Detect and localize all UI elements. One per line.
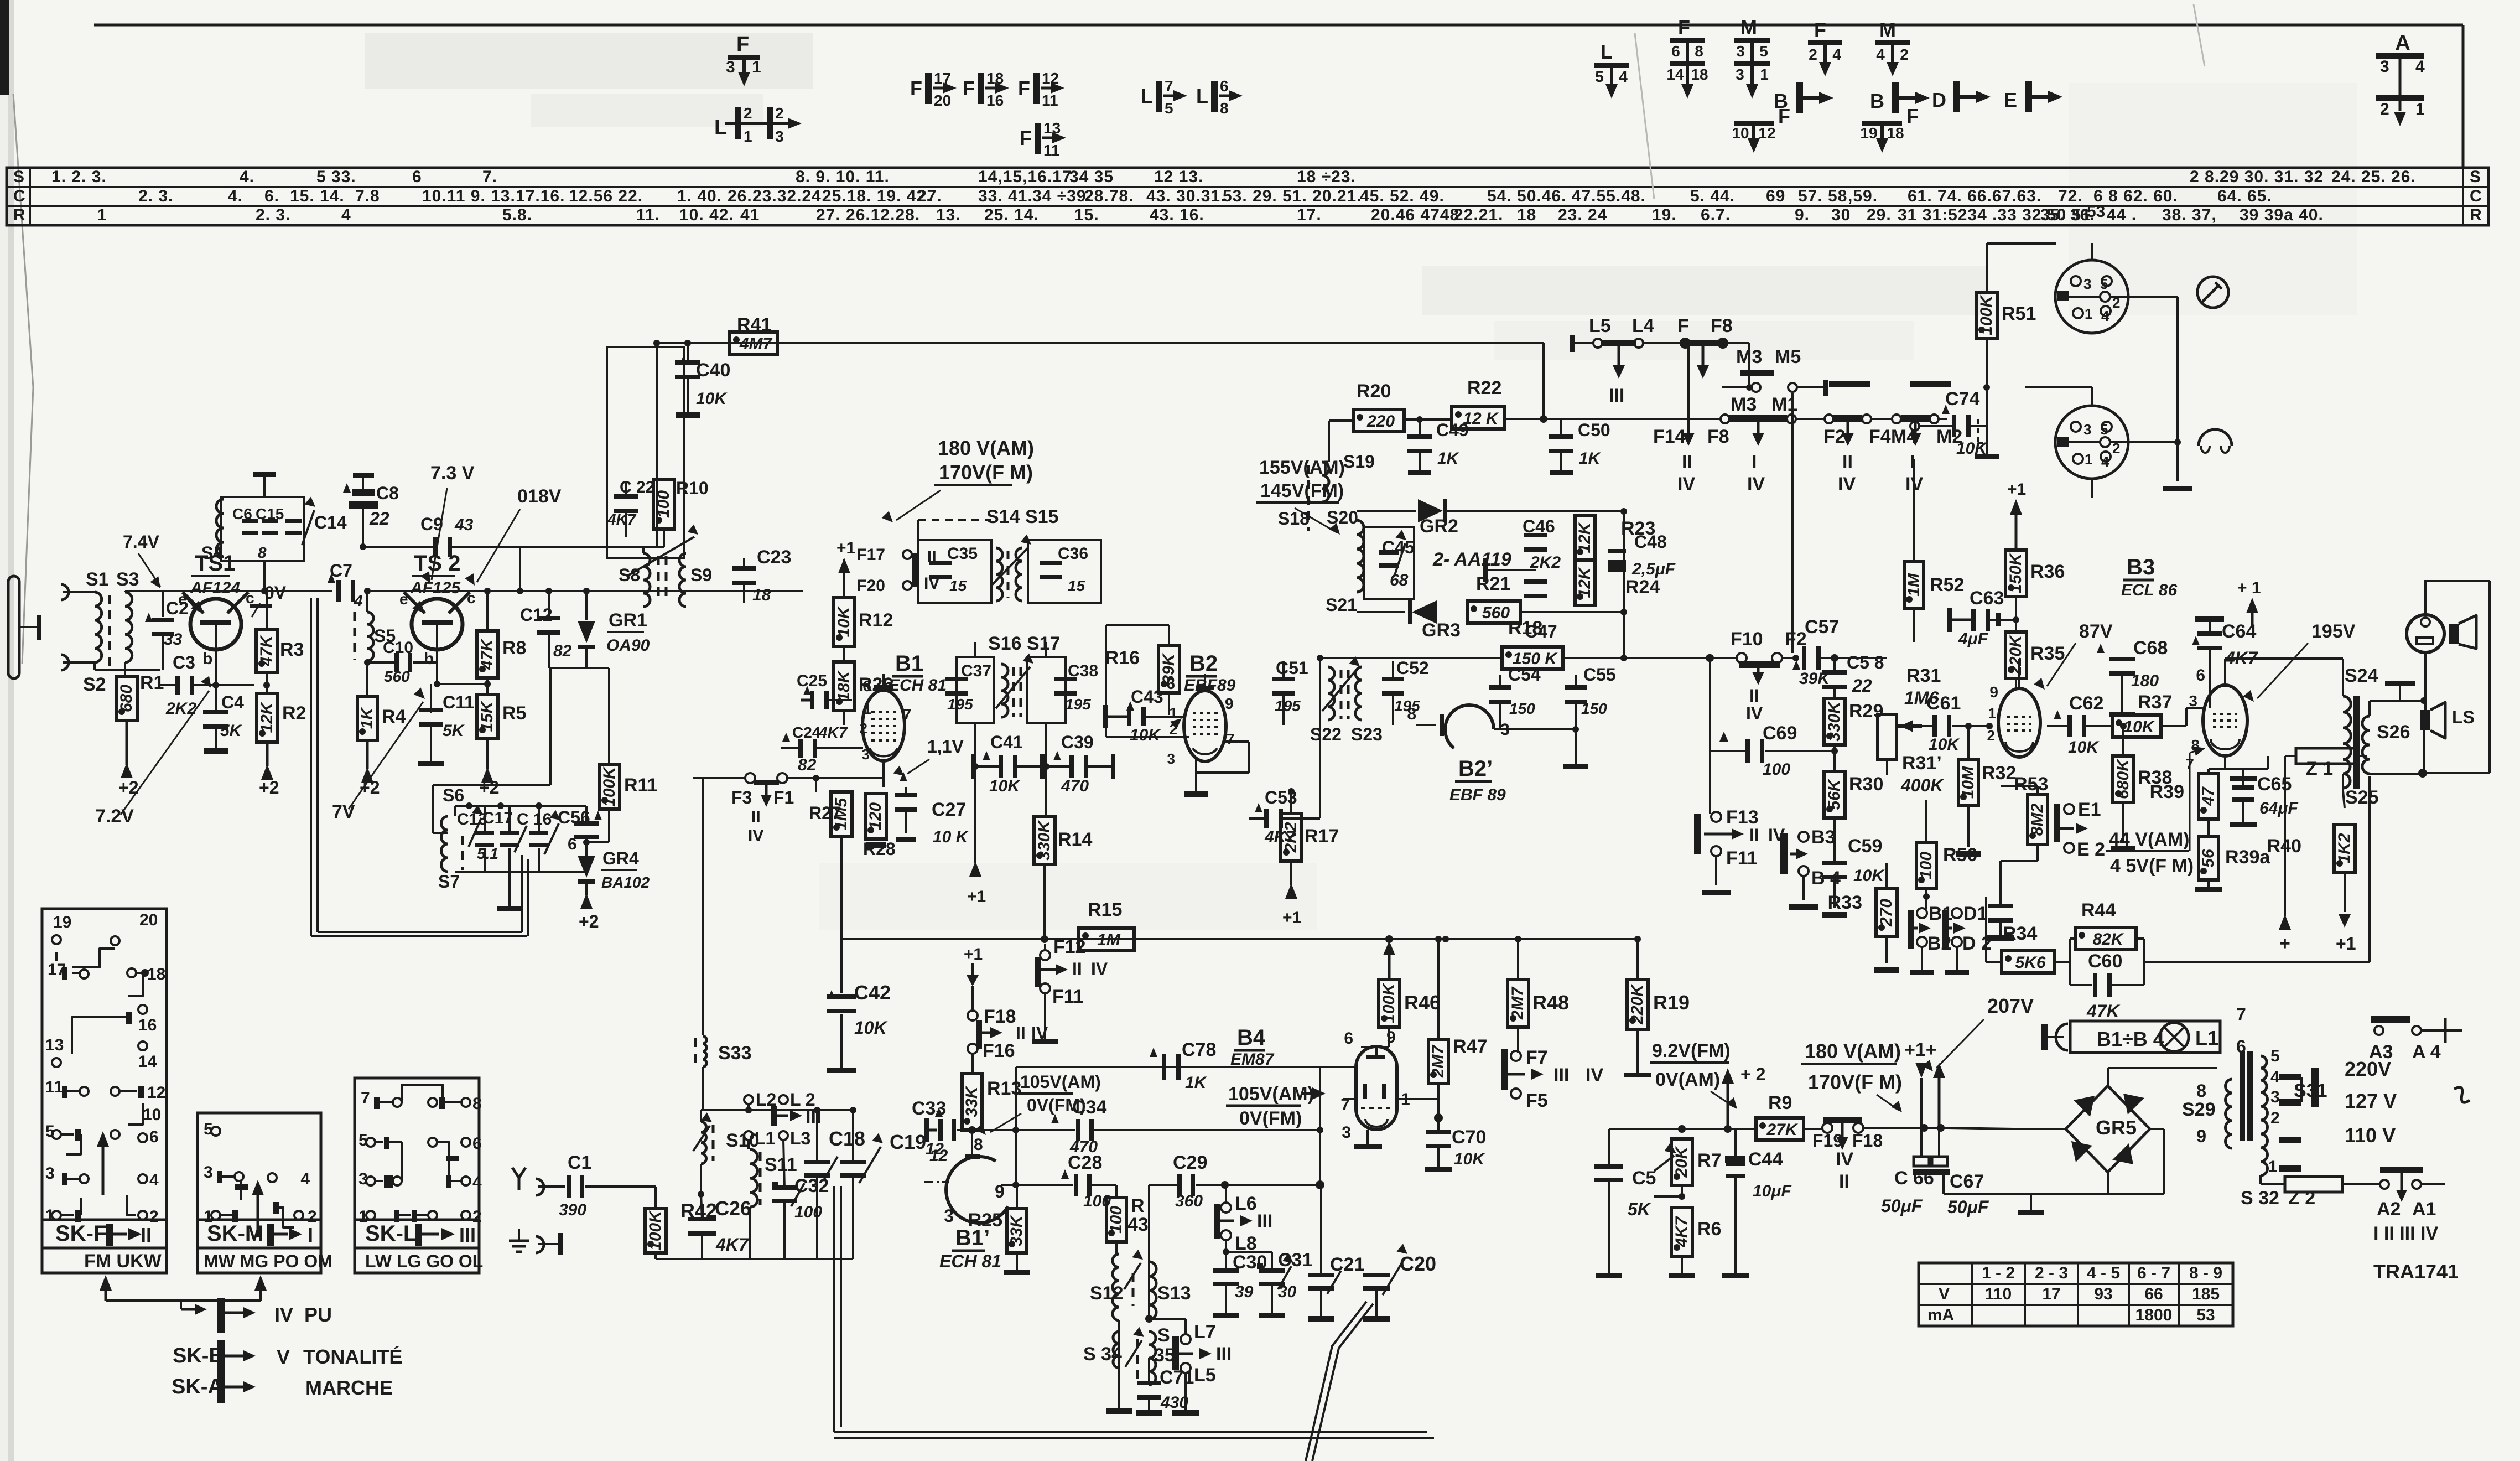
svg-text:C4: C4 (221, 692, 244, 712)
svg-text:7.8: 7.8 (355, 187, 380, 205)
svg-text:TRA1741: TRA1741 (2373, 1260, 2459, 1283)
svg-text:C25: C25 (797, 672, 827, 690)
svg-text:F: F (1778, 105, 1790, 127)
svg-text:3: 3 (944, 1206, 954, 1226)
svg-text:B1: B1 (895, 651, 923, 676)
svg-text:5: 5 (1165, 100, 1173, 117)
svg-text:11: 11 (45, 1078, 63, 1096)
svg-text:10. 42.: 10. 42. (679, 206, 734, 224)
svg-text:II: II (1016, 1023, 1026, 1043)
svg-text:FM UKW: FM UKW (84, 1251, 162, 1272)
svg-text:S: S (1157, 1325, 1170, 1346)
svg-text:10K: 10K (2068, 738, 2100, 757)
svg-text:B4: B4 (1237, 1025, 1266, 1050)
svg-text:7: 7 (361, 1089, 370, 1107)
svg-text:C63: C63 (1970, 588, 2004, 609)
svg-text:S8: S8 (619, 565, 640, 585)
svg-text:S 34: S 34 (1083, 1344, 1122, 1365)
svg-text:195: 195 (1065, 696, 1091, 713)
svg-text:82K: 82K (2092, 930, 2124, 949)
svg-text:100: 100 (1107, 1206, 1125, 1234)
svg-text:S16 S17: S16 S17 (988, 633, 1060, 654)
svg-text:+1+: +1+ (1904, 1039, 1937, 1060)
svg-text:II: II (1682, 452, 1692, 473)
svg-text:8: 8 (2196, 1081, 2206, 1101)
svg-text:B1÷B 4: B1÷B 4 (2097, 1028, 2164, 1050)
svg-text:R18: R18 (1508, 618, 1542, 639)
svg-text:B2’: B2’ (1458, 757, 1493, 781)
svg-text:5: 5 (2270, 1047, 2280, 1065)
svg-text:23.32.24.: 23.32.24. (752, 187, 827, 205)
svg-text:F18: F18 (1852, 1131, 1883, 1151)
svg-text:R10: R10 (676, 478, 709, 498)
svg-text:56K: 56K (1825, 778, 1843, 810)
svg-text:S11: S11 (765, 1154, 797, 1175)
svg-text:68: 68 (1390, 571, 1409, 589)
svg-text:AF124: AF124 (190, 579, 240, 597)
svg-text:150: 150 (1509, 700, 1535, 717)
svg-text:C39: C39 (1061, 732, 1094, 752)
svg-text:C57: C57 (1805, 616, 1839, 638)
svg-text:F: F (1020, 127, 1032, 149)
svg-text:2 8.29 30. 31. 32: 2 8.29 30. 31. 32 (2190, 168, 2324, 186)
svg-text:D: D (1932, 89, 1946, 111)
svg-text:F4: F4 (1869, 426, 1891, 447)
svg-text:120: 120 (866, 802, 885, 830)
svg-text:IV: IV (924, 574, 939, 593)
svg-text:II: II (1072, 959, 1082, 979)
svg-text:C37: C37 (961, 662, 991, 680)
svg-text:I: I (1752, 452, 1757, 473)
svg-text:R47: R47 (1453, 1036, 1487, 1057)
svg-text:390: 390 (559, 1201, 586, 1219)
svg-text:+1: +1 (836, 539, 855, 557)
svg-text:III: III (806, 1107, 821, 1128)
svg-text:S2: S2 (83, 674, 106, 695)
svg-text:C59: C59 (1848, 836, 1882, 857)
svg-text:F1: F1 (773, 788, 794, 807)
svg-text:SK-A: SK-A (172, 1375, 223, 1398)
svg-text:L: L (1601, 40, 1613, 63)
svg-text:195: 195 (1275, 697, 1301, 714)
svg-text:S9: S9 (690, 565, 712, 585)
svg-text:1: 1 (2415, 100, 2425, 118)
svg-text:C10: C10 (383, 639, 413, 657)
svg-text:EM87: EM87 (1230, 1050, 1275, 1069)
svg-text:L3: L3 (790, 1128, 810, 1148)
svg-text:7.: 7. (482, 168, 497, 186)
svg-text:R9: R9 (1768, 1092, 1792, 1113)
svg-text:F14: F14 (1653, 426, 1686, 447)
svg-text:6: 6 (2196, 666, 2205, 685)
svg-text:C1: C1 (568, 1152, 591, 1173)
svg-text:R44: R44 (2081, 900, 2116, 921)
svg-text:SK-F: SK-F (55, 1221, 107, 1246)
svg-text:3: 3 (1342, 1123, 1351, 1142)
svg-text:1: 1 (2085, 451, 2092, 468)
svg-text:S3: S3 (116, 569, 139, 590)
svg-text:10K: 10K (835, 605, 853, 637)
svg-text:C12: C12 (520, 605, 553, 625)
svg-text:560: 560 (384, 668, 410, 685)
svg-text:19: 19 (53, 913, 71, 931)
svg-text:1: 1 (752, 58, 761, 76)
svg-text:13: 13 (1043, 120, 1061, 137)
svg-text:GR3: GR3 (1422, 620, 1461, 641)
svg-text:II: II (141, 1224, 152, 1246)
svg-text:S: S (2470, 168, 2481, 186)
svg-text:E 2: E 2 (2077, 839, 2105, 860)
svg-text:11.: 11. (636, 206, 660, 224)
svg-text:43: 43 (454, 516, 474, 534)
svg-text:33K: 33K (1007, 1214, 1026, 1246)
svg-text:27.: 27. (917, 187, 942, 205)
svg-text:180 V(AM): 180 V(AM) (1805, 1040, 1901, 1063)
svg-text:E: E (2004, 89, 2017, 111)
svg-text:1 - 2: 1 - 2 (1982, 1264, 2015, 1282)
svg-text:R26: R26 (859, 674, 893, 695)
svg-text:2M7: 2M7 (1429, 1045, 1447, 1079)
svg-text:18K: 18K (835, 670, 853, 701)
svg-text:4μF: 4μF (1958, 630, 1988, 648)
svg-text:4K7: 4K7 (607, 511, 637, 528)
svg-text:6: 6 (568, 835, 577, 853)
svg-text:R34: R34 (2003, 923, 2037, 944)
svg-text:0V: 0V (264, 583, 287, 603)
svg-text:180: 180 (2131, 672, 2159, 690)
svg-text:B2: B2 (1189, 651, 1218, 676)
svg-text:R51: R51 (2002, 303, 2036, 324)
svg-text:III: III (1553, 1065, 1569, 1086)
svg-text:R28: R28 (863, 839, 896, 859)
svg-text:5: 5 (1595, 68, 1604, 85)
svg-text:c: c (246, 589, 254, 607)
svg-text:110 V: 110 V (2345, 1124, 2396, 1147)
svg-text:R2: R2 (282, 703, 306, 724)
svg-text:1K: 1K (358, 706, 376, 729)
svg-text:F3: F3 (731, 788, 752, 807)
svg-text:10μF: 10μF (1753, 1182, 1791, 1200)
svg-text:5: 5 (2100, 276, 2108, 292)
svg-text:18: 18 (752, 586, 771, 604)
svg-text:C48: C48 (1634, 532, 1667, 552)
svg-text:IV: IV (1746, 703, 1763, 723)
svg-text:47K: 47K (2086, 1001, 2121, 1021)
svg-text:II: II (751, 808, 761, 826)
svg-text:S19: S19 (1343, 452, 1375, 472)
svg-text:3: 3 (726, 58, 735, 76)
svg-text:8M2: 8M2 (2028, 804, 2046, 836)
svg-text:12K: 12K (258, 701, 276, 733)
svg-text:170V(F M): 170V(F M) (1808, 1071, 1902, 1094)
svg-text:R: R (2470, 206, 2482, 224)
svg-text:II: II (927, 548, 937, 566)
svg-text:R20: R20 (1357, 381, 1391, 402)
svg-text:22.21.: 22.21. (1454, 206, 1503, 224)
svg-text:E1: E1 (2078, 799, 2101, 820)
svg-text:4.: 4. (228, 187, 243, 205)
svg-text:1: 1 (744, 128, 752, 145)
svg-text:C52: C52 (1396, 658, 1429, 678)
svg-text:R8: R8 (502, 638, 526, 659)
svg-text:50μF: 50μF (1881, 1196, 1923, 1216)
svg-text:C49: C49 (1436, 420, 1469, 440)
svg-text:R37: R37 (2138, 692, 2172, 713)
svg-text:110: 110 (1985, 1285, 2012, 1303)
svg-text:C5: C5 (1632, 1168, 1656, 1189)
svg-text:1: 1 (1988, 705, 1996, 722)
svg-text:47: 47 (2199, 786, 2217, 806)
svg-text:L7: L7 (1194, 1322, 1216, 1343)
svg-text:M: M (1879, 18, 1896, 41)
svg-text:270: 270 (1877, 899, 1895, 927)
svg-text:3: 3 (775, 128, 784, 145)
svg-text:L5: L5 (1194, 1365, 1216, 1386)
svg-text:5: 5 (2100, 421, 2108, 438)
svg-text:,59.: ,59. (1848, 187, 1878, 205)
svg-text:3: 3 (2270, 1088, 2280, 1106)
svg-text:195: 195 (947, 696, 973, 713)
svg-text:II: II (1842, 452, 1853, 473)
svg-text:72.: 72. (2058, 187, 2083, 205)
svg-text:C69: C69 (1763, 723, 1797, 744)
svg-text:ECL 86: ECL 86 (2121, 581, 2177, 599)
svg-text:2: 2 (2380, 100, 2389, 118)
svg-text:C44: C44 (1748, 1149, 1783, 1170)
svg-text:IV: IV (1031, 1023, 1048, 1043)
svg-text:C8: C8 (376, 483, 399, 503)
svg-text:4K7: 4K7 (715, 1235, 750, 1255)
svg-text:M3: M3 (1736, 346, 1762, 367)
svg-text:+1: +1 (967, 888, 986, 906)
svg-text:127 V: 127 V (2345, 1090, 2397, 1112)
svg-text:C41: C41 (990, 732, 1023, 752)
svg-text:4: 4 (2270, 1068, 2280, 1086)
svg-text:R35: R35 (2030, 643, 2065, 664)
svg-text:A2: A2 (2377, 1199, 2401, 1220)
svg-text:IV: IV (1747, 474, 1765, 495)
svg-text:18 ÷23.: 18 ÷23. (1297, 168, 1356, 186)
svg-text:10K: 10K (1853, 867, 1885, 885)
svg-text:34 ÷39.: 34 ÷39. (1032, 187, 1092, 205)
svg-text:2,5μF: 2,5μF (1631, 560, 1676, 578)
svg-text:5.1: 5.1 (477, 845, 498, 862)
svg-text:6: 6 (472, 1134, 482, 1153)
svg-text:39: 39 (1235, 1283, 1254, 1301)
svg-text:F: F (910, 77, 922, 100)
svg-text:12: 12 (1758, 125, 1775, 142)
svg-text:33. 41.: 33. 41. (978, 187, 1033, 205)
svg-text:ECH 81: ECH 81 (889, 676, 947, 695)
svg-text:45. 52. 49.: 45. 52. 49. (1360, 187, 1445, 205)
svg-text:C35: C35 (947, 545, 978, 563)
svg-text:35: 35 (1154, 1345, 1175, 1366)
svg-text:C36: C36 (1058, 545, 1088, 563)
svg-text:1: 1 (45, 1206, 55, 1225)
svg-text:C5 8: C5 8 (1847, 652, 1884, 672)
svg-text:10K: 10K (989, 777, 1021, 795)
svg-text:1: 1 (1170, 704, 1177, 721)
svg-text:L4: L4 (1632, 315, 1654, 336)
svg-text:IV: IV (1677, 474, 1695, 495)
svg-text:100: 100 (1763, 760, 1790, 779)
svg-text:S7: S7 (438, 872, 460, 892)
svg-text:5.8.: 5.8. (502, 206, 532, 224)
svg-text:+ 1: + 1 (2237, 579, 2261, 597)
svg-text:R31: R31 (1906, 665, 1941, 686)
svg-text:b: b (424, 650, 434, 668)
svg-text:100K: 100K (1380, 982, 1398, 1023)
svg-text:C31: C31 (1278, 1250, 1312, 1271)
svg-text:15.: 15. (1074, 206, 1099, 224)
svg-text:TONALITÉ: TONALITÉ (303, 1345, 402, 1368)
svg-text:3: 3 (2189, 692, 2197, 709)
svg-text:6: 6 (1344, 1029, 1353, 1048)
svg-text:12: 12 (1042, 70, 1059, 87)
svg-text:39K: 39K (1160, 652, 1178, 684)
svg-text:1K: 1K (1185, 1074, 1208, 1092)
svg-text:GR1: GR1 (609, 610, 647, 631)
svg-text:C28: C28 (1068, 1152, 1102, 1173)
svg-text:C43: C43 (1131, 687, 1163, 707)
svg-text:17: 17 (934, 70, 951, 87)
svg-text:4: 4 (1619, 68, 1628, 85)
svg-text:17.16.: 17.16. (516, 187, 565, 205)
svg-text:R11: R11 (624, 775, 658, 796)
svg-text:B3: B3 (1811, 827, 1835, 848)
svg-text:L1: L1 (2195, 1027, 2218, 1049)
svg-text:S13: S13 (1157, 1283, 1191, 1304)
svg-text:22: 22 (1852, 676, 1872, 696)
svg-text:M3: M3 (1731, 394, 1757, 415)
svg-text:2 - 3: 2 - 3 (2035, 1264, 2068, 1282)
svg-text:8: 8 (1220, 100, 1229, 117)
svg-text:145V(FM): 145V(FM) (1260, 480, 1344, 501)
svg-text:L: L (1141, 85, 1153, 107)
svg-text:4: 4 (1832, 46, 1841, 63)
svg-text:38. 37,: 38. 37, (2162, 206, 2217, 224)
svg-text:C7: C7 (330, 561, 352, 581)
svg-text:C38: C38 (1068, 662, 1098, 680)
svg-text:50μF: 50μF (1947, 1197, 1989, 1217)
svg-text:5K: 5K (1628, 1199, 1652, 1219)
svg-text:+2: +2 (479, 778, 499, 797)
svg-text:S31: S31 (2294, 1080, 2327, 1101)
svg-text:1: 1 (864, 701, 871, 717)
svg-text:D1: D1 (1963, 903, 1987, 924)
svg-text:R15: R15 (1088, 899, 1122, 920)
svg-text:S22: S22 (1310, 724, 1342, 744)
svg-text:54. 50.46. 47.55.48.: 54. 50.46. 47.55.48. (1487, 187, 1646, 205)
svg-text:C24: C24 (792, 724, 821, 741)
svg-text:e: e (178, 590, 187, 608)
svg-text:3: 3 (1736, 66, 1744, 83)
svg-text:6 - 7: 6 - 7 (2137, 1264, 2170, 1282)
svg-text:R: R (13, 206, 25, 224)
svg-text:L5: L5 (1589, 315, 1611, 336)
svg-text:ECH 81: ECH 81 (939, 1251, 1001, 1271)
svg-text:2. 3.: 2. 3. (256, 206, 290, 224)
svg-text:19: 19 (1860, 125, 1877, 142)
svg-text:27K: 27K (1766, 1121, 1798, 1139)
svg-text:1. 2. 3.: 1. 2. 3. (51, 168, 107, 186)
svg-text:MARCHE: MARCHE (305, 1376, 393, 1399)
svg-text:27. 26.12.28.: 27. 26.12.28. (816, 206, 920, 224)
svg-text:F: F (736, 33, 749, 56)
svg-text:1M: 1M (1097, 931, 1121, 949)
svg-text:R52: R52 (1930, 574, 1964, 595)
svg-text:LS: LS (2452, 707, 2475, 727)
svg-text:7: 7 (903, 706, 912, 723)
svg-text:22: 22 (369, 509, 389, 529)
svg-text:30: 30 (1278, 1283, 1297, 1301)
svg-text:M5: M5 (1775, 346, 1801, 367)
svg-text:C78: C78 (1182, 1039, 1216, 1060)
svg-text:7.4V: 7.4V (123, 532, 159, 552)
svg-text:100K: 100K (1977, 294, 1996, 335)
svg-text:+2: +2 (579, 911, 599, 931)
svg-text:C67: C67 (1950, 1171, 1984, 1192)
svg-text:207V: 207V (1987, 994, 2034, 1017)
svg-text:2: 2 (2270, 1109, 2280, 1127)
svg-text:15: 15 (1068, 577, 1085, 594)
svg-text:34 35: 34 35 (1069, 168, 1114, 186)
svg-text:GR5: GR5 (2096, 1116, 2137, 1139)
svg-text:F11: F11 (1726, 848, 1758, 869)
svg-text:10.11 9. 13.: 10.11 9. 13. (422, 187, 516, 205)
svg-text:LW LG GO OL: LW LG GO OL (365, 1251, 483, 1271)
svg-text:C60: C60 (2088, 951, 2122, 972)
svg-text:C42: C42 (854, 981, 891, 1004)
svg-text:360: 360 (1175, 1192, 1203, 1210)
svg-text:III: III (1216, 1344, 1232, 1365)
svg-text:44 V(AM): 44 V(AM) (2109, 829, 2189, 850)
svg-text:7: 7 (1165, 77, 1173, 95)
svg-text:C14: C14 (314, 512, 347, 532)
svg-text:F18: F18 (984, 1006, 1016, 1027)
svg-text:M: M (1740, 16, 1757, 39)
svg-text:A 4: A 4 (2412, 1042, 2441, 1063)
svg-text:R22: R22 (1467, 377, 1501, 398)
svg-text:F5: F5 (1526, 1090, 1548, 1111)
svg-text:C40: C40 (696, 360, 730, 381)
svg-text:4: 4 (300, 1170, 310, 1188)
svg-text:+1: +1 (2007, 480, 2026, 499)
svg-text:330K: 330K (1035, 820, 1053, 861)
svg-text:44 .: 44 . (2107, 206, 2137, 224)
svg-text:S33: S33 (718, 1043, 752, 1064)
svg-text:10 K: 10 K (933, 828, 969, 846)
svg-text:26.: 26. (728, 187, 752, 205)
svg-text:F2: F2 (1823, 426, 1846, 447)
svg-text:18: 18 (1691, 66, 1708, 83)
svg-text:F17: F17 (856, 546, 885, 564)
svg-text:11: 11 (1042, 92, 1058, 109)
svg-text:1: 1 (2085, 305, 2092, 322)
svg-text:II: II (1839, 1171, 1849, 1192)
svg-text:2: 2 (149, 1208, 159, 1226)
svg-text:Z 2: Z 2 (2288, 1188, 2315, 1209)
svg-text:10K: 10K (854, 1018, 889, 1038)
svg-text:SK-M: SK-M (207, 1221, 263, 1246)
svg-text:C34: C34 (1072, 1097, 1106, 1118)
svg-text:4: 4 (2101, 453, 2109, 470)
svg-text:S 32: S 32 (2241, 1188, 2279, 1209)
svg-text:R46: R46 (1404, 991, 1441, 1014)
svg-text:4K7: 4K7 (818, 724, 848, 741)
svg-text:8: 8 (1695, 43, 1703, 60)
svg-text:C61: C61 (1926, 693, 1961, 714)
